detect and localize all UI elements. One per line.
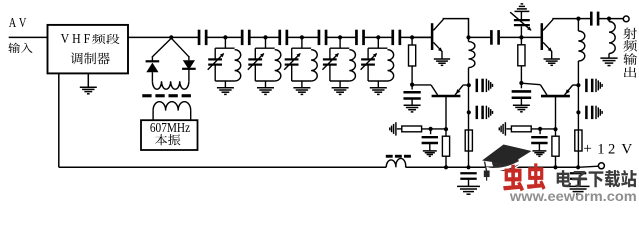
node stage2 out bbox=[576, 17, 580, 21]
capacitor C18 output bbox=[578, 18, 590, 20]
capacitor C14 bbox=[539, 129, 541, 134]
wire box to ground bbox=[87, 73, 89, 87]
inductor L3 bbox=[468, 37, 470, 41]
wire rail segment 2 bbox=[207, 36, 242, 38]
ground left of R6 bbox=[504, 122, 506, 135]
ground under C17 bbox=[567, 185, 590, 187]
svg-text:V H F: V H F bbox=[61, 31, 91, 46]
+12V terminal bbox=[598, 163, 604, 169]
svg-text:2: 2 bbox=[608, 141, 615, 157]
tuned circuit tank 5 (trimmer + coil) bbox=[376, 35, 380, 39]
node Q4 base bias bbox=[553, 127, 557, 131]
capacitor C9 bypass bbox=[476, 79, 479, 92]
ground left of R2 bbox=[395, 122, 397, 135]
wire rail segment 5 bbox=[327, 36, 356, 38]
node bias junction 2 bbox=[538, 127, 542, 131]
choke core dashes bbox=[386, 155, 393, 158]
node E bbox=[519, 81, 523, 85]
wire rail segment 7 bbox=[401, 36, 432, 38]
resistor R1 bbox=[411, 37, 413, 45]
oscillator box 607MHz bbox=[141, 120, 198, 150]
ground under C8 bbox=[423, 150, 437, 152]
ground Q3 emitter bbox=[544, 58, 560, 60]
wire gnd to R2 bbox=[397, 128, 402, 130]
capacitor C15 bypass bbox=[585, 79, 588, 92]
label 本振 bbox=[155, 134, 180, 145]
wire bias row 2 bbox=[531, 128, 555, 130]
label 射频输出 bbox=[623, 28, 637, 40]
node Q2 base bias bbox=[444, 127, 448, 131]
ground under C7 bbox=[404, 104, 421, 106]
resistor R2 bbox=[402, 126, 422, 132]
wire diode branches bbox=[152, 38, 171, 57]
capacitor C5 bbox=[355, 30, 358, 45]
wire rail segment 3 bbox=[250, 36, 279, 38]
wire Q3 emitter to ground bbox=[551, 51, 553, 59]
transistor Q4 bbox=[540, 85, 547, 95]
wire rail segment 6 bbox=[364, 36, 392, 38]
resistor R5 bbox=[520, 37, 522, 44]
watermark 虫虫 bbox=[503, 165, 524, 192]
capacitor C16 bypass bbox=[585, 106, 588, 119]
resistor R7 bbox=[555, 129, 557, 136]
resistor R6 bbox=[511, 126, 531, 132]
inductor L5 bbox=[608, 19, 610, 22]
capacitor C3 bbox=[278, 30, 281, 45]
wire node B to Q2 bbox=[412, 84, 431, 86]
node emitter rail 2 bbox=[553, 165, 557, 169]
node decouple 1 bbox=[466, 165, 470, 169]
wire rail segment 4 bbox=[288, 36, 319, 38]
wire box down to supply rail bbox=[58, 73, 60, 167]
ground right of C10 bbox=[485, 106, 487, 119]
wire node E to Q4 bbox=[521, 83, 540, 85]
watermark 电子下载站 bbox=[557, 170, 637, 187]
diode D1 (cathode up) bbox=[146, 60, 160, 62]
node emitter rail 1 bbox=[444, 165, 448, 169]
ground under C14 bbox=[532, 150, 546, 152]
ground right of C15 bbox=[595, 79, 597, 92]
wire AV input bbox=[9, 36, 48, 38]
wire top rail segment 1 bbox=[128, 36, 198, 38]
wire gnd to R6 bbox=[506, 128, 511, 130]
diode D2 (cathode down) bbox=[183, 60, 195, 70]
wire Q4 base down bbox=[555, 96, 557, 129]
svg-text:+: + bbox=[583, 141, 591, 157]
capacitor C17 decouple bbox=[570, 172, 586, 174]
choke L6 in supply rail bbox=[386, 158, 406, 167]
wire Q2 base down bbox=[445, 96, 447, 129]
wire Q3 collector top bbox=[552, 18, 578, 20]
ground right of C16 bbox=[595, 106, 597, 119]
ground under C13 bbox=[513, 104, 530, 106]
node D bbox=[576, 83, 580, 87]
capacitor C6 bbox=[391, 30, 394, 45]
node stage1 out bbox=[466, 35, 470, 39]
svg-text:1: 1 bbox=[597, 141, 604, 157]
transistor Q2 bbox=[431, 85, 438, 95]
supply rail +12V bbox=[59, 166, 386, 168]
transistor Q3 bbox=[521, 36, 540, 38]
transformer core dashes bbox=[142, 94, 151, 97]
tuned circuit tank 4 (trimmer + coil) bbox=[338, 35, 342, 39]
capacitor C1 bbox=[198, 30, 201, 45]
ground under box bbox=[80, 86, 97, 88]
node D2 bbox=[576, 110, 580, 114]
capacitor C4 bbox=[318, 30, 321, 45]
LO coil L2 bbox=[152, 111, 154, 121]
node bias junction bbox=[429, 127, 433, 131]
wire Q1 collector top bbox=[443, 19, 469, 38]
capacitor C2 bbox=[241, 30, 244, 45]
capacitor C8 bbox=[430, 129, 432, 134]
wire bias row bbox=[422, 128, 446, 130]
RF output terminal bbox=[623, 16, 629, 22]
capacitor C10 bypass bbox=[476, 106, 479, 119]
ground under C11 bbox=[457, 185, 480, 187]
node mixer junction bbox=[169, 35, 173, 39]
label 输入 bbox=[8, 43, 32, 53]
svg-text:607MHz: 607MHz bbox=[150, 120, 190, 135]
trimmer CT1 bbox=[520, 26, 522, 37]
svg-text:A V: A V bbox=[9, 15, 27, 30]
resistor R4 bbox=[465, 130, 472, 151]
ground under L5 bbox=[600, 57, 617, 59]
capacitor C13 bypass bbox=[520, 83, 522, 88]
watermark graduation cap logo bbox=[492, 154, 519, 172]
svg-text:V: V bbox=[621, 141, 632, 157]
inductor L4 bbox=[577, 19, 579, 31]
capacitor C7 bypass bbox=[411, 85, 413, 90]
capacitor C11 decouple bbox=[460, 172, 476, 174]
label 频段 bbox=[92, 34, 119, 44]
mixer coil L1 bbox=[152, 81, 188, 89]
ground Q1 emitter bbox=[434, 58, 450, 60]
resistor R8 bbox=[575, 130, 582, 151]
VHF modulator box U1 bbox=[48, 25, 129, 74]
node output tap bbox=[607, 17, 611, 21]
node R1 junction bbox=[410, 35, 414, 39]
tuned circuit tank 2 (trimmer + coil) bbox=[263, 35, 267, 39]
ground right of C9 bbox=[485, 79, 487, 92]
transistor Q1 bbox=[412, 36, 431, 38]
tuned circuit tank 1 (trimmer + coil) bbox=[223, 35, 227, 39]
ground above trimmer bbox=[515, 10, 530, 12]
capacitor C12 coupling bbox=[469, 36, 491, 38]
svg-text:www.eeworm.com: www.eeworm.com bbox=[509, 189, 637, 202]
node C2 bbox=[467, 110, 471, 114]
label 调制器 bbox=[71, 52, 110, 64]
tuned circuit tank 3 (trimmer + coil) bbox=[300, 35, 304, 39]
resistor R3 bbox=[445, 129, 447, 136]
wire +12V feed bbox=[578, 166, 599, 167]
node supply end bbox=[576, 165, 580, 169]
node B bbox=[410, 83, 414, 87]
node trimmer junction bbox=[519, 35, 523, 39]
node C bbox=[467, 83, 471, 87]
wire Q1 emitter to ground bbox=[441, 51, 443, 59]
